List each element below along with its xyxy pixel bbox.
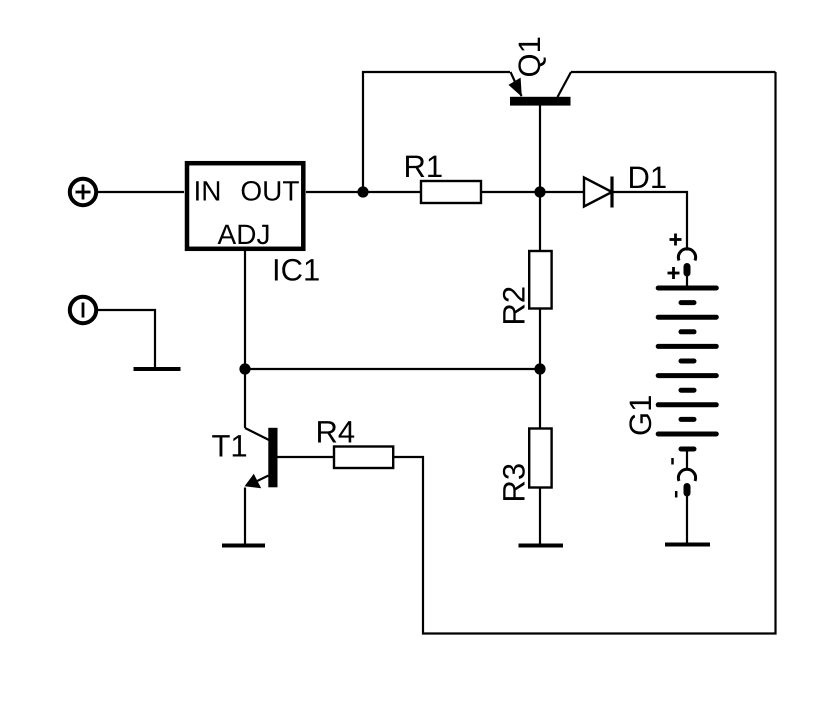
ground under R3 xyxy=(519,544,564,548)
wire R4 to right rail loop xyxy=(393,72,775,634)
battery G1 cell plates xyxy=(658,288,716,449)
battery top connector socket xyxy=(678,249,695,261)
ground under battery xyxy=(665,543,710,547)
IC1 regulator box xyxy=(187,163,303,249)
wire bottom pin to ground xyxy=(686,495,688,543)
resistor R2 xyxy=(529,251,551,309)
wire ADJ node to R2/R3 node xyxy=(245,368,540,370)
svg-text:R1: R1 xyxy=(404,149,444,184)
wire ADJ pin down to node xyxy=(244,251,246,369)
wire T1 base to R4 xyxy=(278,456,335,458)
svg-text:R3: R3 xyxy=(497,463,532,503)
svg-text:G1: G1 xyxy=(623,395,658,436)
wire Q1 node down through R2 xyxy=(539,192,541,251)
plus sign near socket xyxy=(670,234,682,246)
wire R2 to node xyxy=(539,309,541,370)
battery bottom connector pin xyxy=(684,487,691,494)
wire last plate to bottom connector xyxy=(686,451,688,470)
wire node down to T1 collector xyxy=(244,369,246,428)
battery top connector pin xyxy=(684,267,691,274)
wire from + terminal to IC1 IN xyxy=(96,191,184,193)
wire up from node to Q1 emitter xyxy=(363,72,510,192)
battery bottom connector socket xyxy=(678,469,695,481)
svg-text:IC1: IC1 xyxy=(272,253,320,288)
resistor R4 xyxy=(334,447,393,469)
resistor R1 xyxy=(421,181,481,203)
wire node to R3 xyxy=(539,369,541,429)
wire from - terminal to ground xyxy=(96,310,155,368)
transistor T1 xyxy=(245,428,278,544)
svg-text:IN: IN xyxy=(194,176,222,207)
node at ADJ branch xyxy=(239,363,250,374)
ground at - terminal xyxy=(134,367,181,371)
minus sign near bottom socket xyxy=(671,458,674,465)
resistor R3 xyxy=(529,429,551,488)
node at R1/R2 junction xyxy=(534,186,545,197)
svg-text:ADJ: ADJ xyxy=(218,219,271,250)
svg-text:T1: T1 xyxy=(212,429,248,464)
wire R3 to ground xyxy=(539,488,541,545)
ground under T1 xyxy=(222,544,265,548)
terminal + (input positive) xyxy=(70,179,96,205)
node at R2/R3 junction xyxy=(534,363,545,374)
node at OUT branch xyxy=(357,186,368,197)
terminal - (input negative) xyxy=(70,297,96,323)
svg-text:R2: R2 xyxy=(497,286,532,326)
wire R1 to diode xyxy=(481,191,584,193)
minus sign near bottom pin xyxy=(675,491,678,498)
svg-text:D1: D1 xyxy=(628,160,668,195)
wire Q1 collector to right rail xyxy=(571,71,776,73)
wire pin to first plate xyxy=(686,275,688,287)
svg-text:Q1: Q1 xyxy=(512,36,547,77)
plus sign near pin xyxy=(668,267,680,279)
svg-text:OUT: OUT xyxy=(240,176,299,207)
wire OUT to R1 xyxy=(306,191,421,193)
svg-text:R4: R4 xyxy=(316,414,356,449)
wire D1 to battery xyxy=(612,192,687,251)
diode D1 xyxy=(584,177,612,208)
transistor Q1 (PNP pass transistor) xyxy=(509,72,572,192)
